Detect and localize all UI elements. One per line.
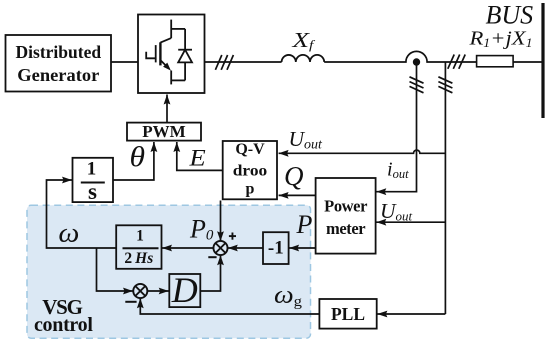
svg-text:Xf: Xf — [291, 28, 315, 52]
wire: junction 2 to D — [148, 290, 169, 292]
plus sign at junction 1 — [229, 233, 236, 240]
svg-text:Q: Q — [284, 161, 304, 191]
minus sign at junction 1 — [208, 256, 216, 258]
wire: omega_g from PLL into junction 2 — [140, 298, 319, 314]
wire: voltage tap vertical line — [444, 62, 446, 314]
svg-text:Uout: Uout — [380, 199, 413, 224]
svg-text:2 Hs: 2 Hs — [124, 250, 153, 267]
svg-text:Q-V: Q-V — [235, 141, 265, 158]
IGBT inside inverter — [146, 20, 171, 85]
label: VSG control — [34, 295, 93, 336]
box: integrator 1/s — [73, 158, 114, 204]
wire: current tap iout to power meter — [376, 62, 416, 192]
svg-text:Distributed: Distributed — [16, 42, 102, 62]
wire: omega feedback to integrator input — [47, 180, 117, 248]
svg-text:droo: droo — [233, 163, 268, 180]
box: Q-V droop — [223, 141, 277, 199]
wire: P from power meter to -1 — [289, 247, 316, 249]
inverter box U1 — [138, 15, 205, 94]
svg-text:R1+jX1: R1+jX1 — [468, 28, 532, 51]
box: Power meter — [316, 178, 376, 254]
svg-text:PLL: PLL — [331, 304, 365, 324]
svg-text:control: control — [34, 314, 93, 336]
summing junction 2 (frequency) — [133, 284, 147, 298]
wire: omega branch to damping junction — [97, 248, 134, 291]
wire: resistor to bus — [513, 61, 543, 63]
anti-parallel diode inside inverter — [171, 29, 192, 81]
box: Distributed Generator — [6, 35, 112, 92]
box: -1 gain — [263, 232, 289, 264]
wire: -1 to summing junction 1 — [228, 247, 263, 249]
svg-text:-1: -1 — [268, 238, 284, 259]
svg-text:iout: iout — [387, 159, 409, 182]
node dot — [413, 58, 420, 65]
box PWM — [127, 122, 201, 141]
box PLL — [319, 299, 376, 329]
svg-text:s: s — [88, 179, 97, 204]
bus bar — [541, 3, 544, 118]
3-phase slashes on inverter output — [215, 55, 233, 70]
svg-text:PWM: PWM — [142, 122, 185, 141]
box: 1/(2Hs) — [116, 225, 161, 268]
svg-text:D: D — [171, 270, 198, 310]
wire: Uout to Q-V droop with hop — [279, 150, 446, 153]
svg-text:BUS: BUS — [486, 1, 534, 30]
wire: inverter output to node — [205, 61, 282, 63]
inductor Xf — [282, 55, 325, 62]
3-phase slashes on grid line — [448, 55, 465, 69]
VSG control dashed region — [27, 205, 311, 338]
svg-text:P: P — [296, 210, 313, 239]
svg-text:1: 1 — [87, 159, 97, 180]
svg-text:meter: meter — [326, 219, 365, 238]
summing junction 1 (power) — [213, 241, 227, 255]
svg-text:θ: θ — [130, 142, 146, 173]
wire: E from Q-V droop to PWM — [177, 142, 223, 170]
wire: PWM to inverter — [166, 95, 168, 123]
wire: D output up into junction 1 — [200, 255, 220, 291]
emitter arrowhead — [163, 63, 171, 71]
wire: inductor to grid with hop over — [324, 51, 476, 62]
3-phase slashes on voltage tap — [438, 77, 452, 93]
wire: summing junction to 1/(2Hs) — [162, 247, 213, 249]
wire: theta from integrator to PWM — [113, 142, 154, 180]
minus sign at junction 2 — [125, 301, 136, 303]
wire: generator to inverter — [111, 61, 138, 63]
wire: grid voltage into PLL — [377, 313, 445, 315]
3-phase slashes on current tap — [410, 77, 424, 93]
svg-text:1: 1 — [136, 228, 144, 245]
wire: Q from power meter to Q-V droop — [279, 194, 316, 196]
svg-text:p: p — [246, 181, 255, 198]
wire: Uout to power meter — [376, 221, 445, 223]
wire: P0 reference into summing junction — [220, 201, 222, 242]
svg-text:E: E — [188, 146, 205, 172]
svg-text:Power: Power — [324, 197, 367, 216]
svg-text:ω: ω — [58, 217, 79, 248]
box: D damping — [169, 270, 200, 310]
resistor R1+jX1 — [477, 56, 513, 67]
svg-text:Generator: Generator — [17, 65, 99, 85]
svg-text:Uout: Uout — [289, 127, 324, 152]
